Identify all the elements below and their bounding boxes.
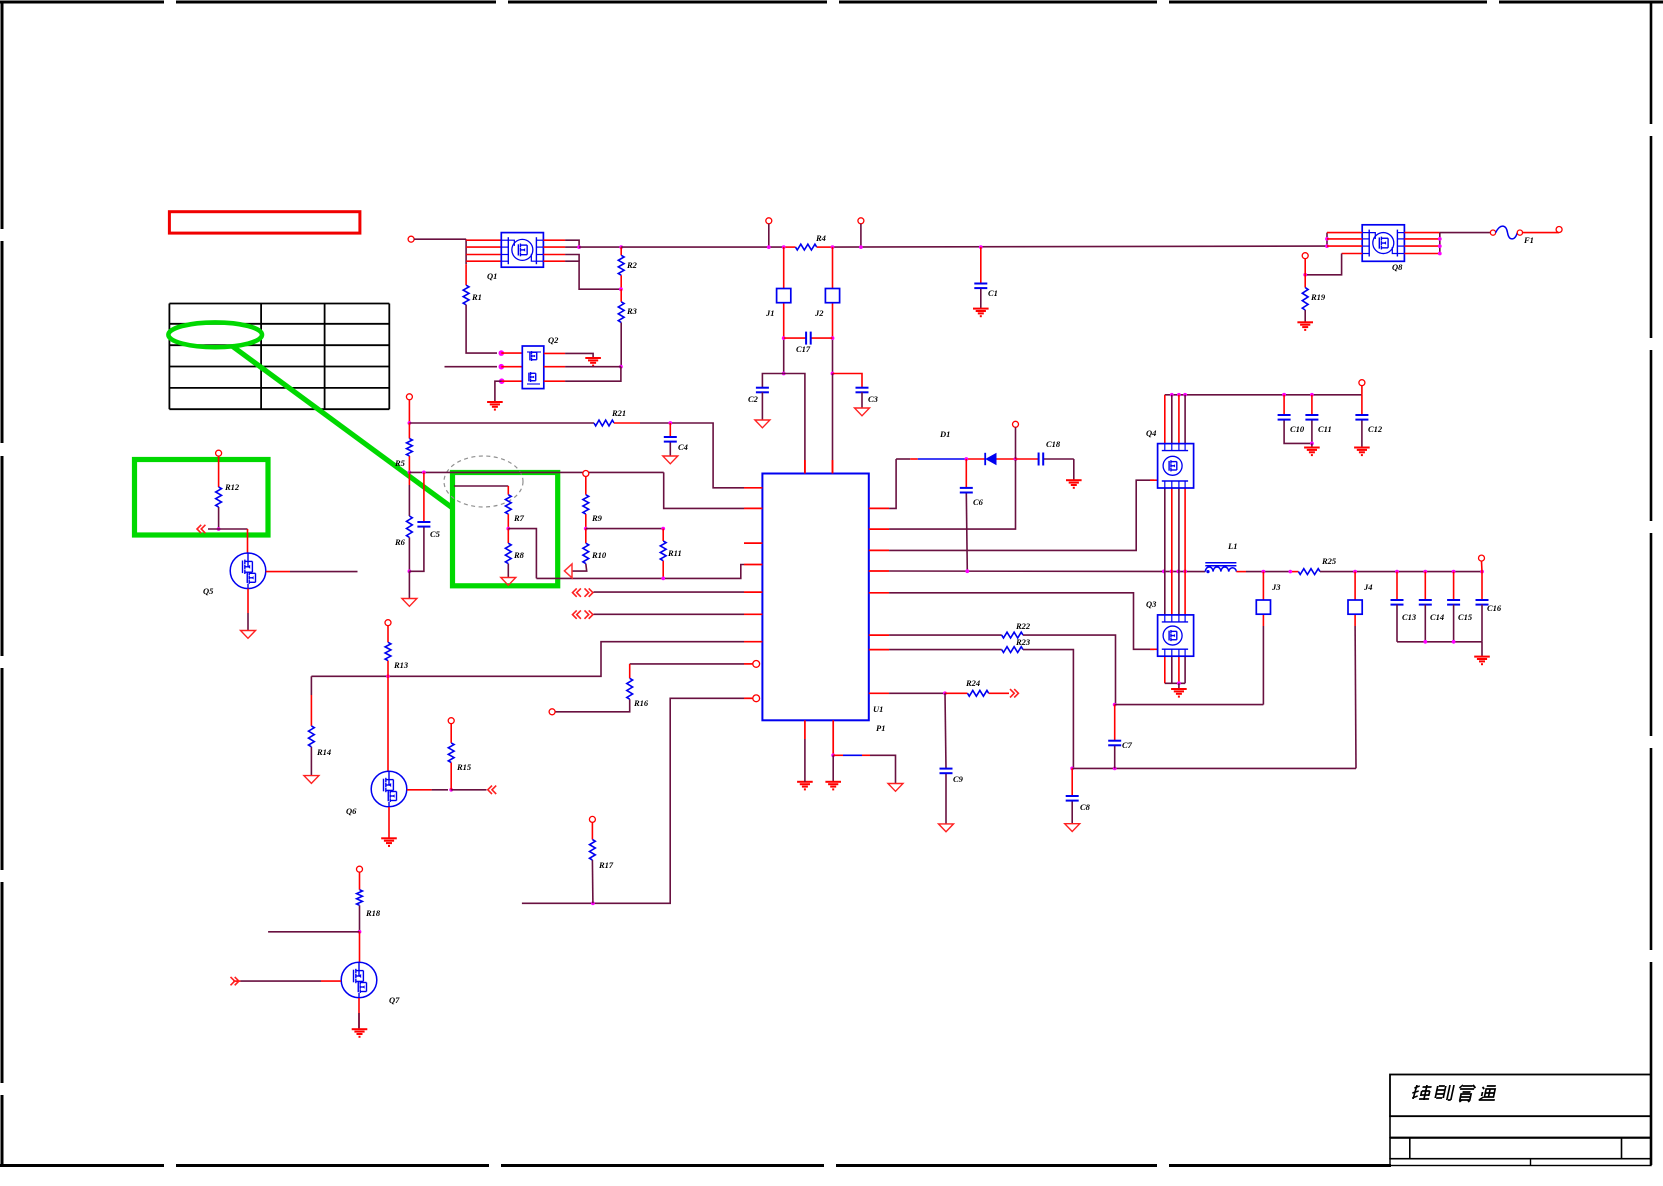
jumper S4 (1348, 600, 1362, 614)
svg-text:R11: R11 (667, 548, 682, 558)
label R21 (611, 408, 626, 418)
label R4 (815, 233, 826, 243)
wire IC pin698 route (522, 698, 744, 903)
resistor R2 (618, 255, 624, 275)
label L1 (1227, 541, 1237, 551)
wire R2 leads (620, 247, 622, 289)
inductor L1 (1205, 563, 1236, 574)
label Q5 (203, 586, 214, 596)
wire T2 tap (768, 224, 770, 247)
wire to ground GB1 (408, 571, 410, 598)
wire P3 out (1440, 232, 1490, 234)
junction (859, 245, 863, 249)
svg-text:R4: R4 (815, 233, 826, 243)
svg-text:R5: R5 (394, 458, 406, 468)
wire node to sense line (508, 529, 536, 579)
wire S4 chain (1354, 572, 1357, 769)
wire P3 left bus bar (1326, 233, 1328, 247)
resistor R23 inline (1002, 647, 1023, 653)
capacitor C2 (756, 388, 769, 393)
junction (1395, 570, 1399, 574)
wire fet bus mid (1178, 488, 1180, 615)
junction (1177, 681, 1181, 685)
terminal T15 (549, 709, 555, 715)
wire Q6 gate (407, 789, 448, 791)
wire C17 leads (784, 337, 833, 339)
wire C14 top lead (1424, 572, 1426, 600)
svg-text:R22: R22 (1015, 621, 1031, 631)
junction (782, 336, 786, 340)
capacitor C17 (806, 332, 811, 345)
label S3 (1271, 582, 1281, 592)
sheet border top edge (0, 1, 1663, 4)
wire Q5 source (247, 589, 249, 631)
wire fet bus mid (1171, 488, 1173, 615)
wire R10 chain (572, 529, 587, 572)
capacitor C16 (1476, 600, 1489, 605)
wire P5 gate stub (1150, 648, 1158, 650)
wire R15 chain (450, 724, 452, 790)
svg-text:Q2: Q2 (548, 335, 559, 345)
ground (973, 309, 989, 317)
wire diode to node (997, 458, 1016, 460)
wire VOUT bus (1320, 571, 1482, 573)
wire Q1 left pin stubs (466, 240, 501, 261)
label R9 (591, 513, 603, 523)
label Q2 (548, 335, 559, 345)
svg-text:F1: F1 (1523, 235, 1534, 245)
mosfet Q2 dual package (522, 346, 544, 389)
wire fet bus lower (1178, 656, 1180, 683)
junction (449, 788, 453, 792)
resistor R24 inline (968, 690, 989, 696)
offpage connector pair A (573, 588, 593, 596)
ground (663, 456, 678, 464)
mosfet P4 package (1158, 444, 1194, 488)
label R7 (513, 513, 525, 523)
junction (1262, 570, 1266, 574)
label R3 (626, 306, 638, 316)
wire SW to R25 (1236, 571, 1298, 573)
junction (1452, 570, 1456, 574)
wire fet bus upper (1178, 395, 1180, 444)
wire IC pin508 up-over (889, 459, 896, 508)
label C11 (1318, 424, 1332, 434)
wire SW node (889, 570, 1205, 573)
junction (1162, 570, 1166, 574)
junction (1480, 570, 1484, 574)
wire Q2 left pin stubs (501, 353, 522, 381)
junction (1183, 393, 1187, 397)
ground (585, 358, 601, 366)
junction (1070, 767, 1074, 771)
resistor R12 (216, 487, 222, 507)
wire IC pin635 lead (889, 634, 1002, 636)
mosfet P3 package (1362, 225, 1404, 261)
wire fet bus lower (1171, 656, 1173, 683)
wire T1 to Q1 pin bus (414, 238, 466, 240)
svg-text:Q6: Q6 (346, 806, 357, 816)
wire divider stub (454, 485, 508, 487)
wire C13 bottom lead (1396, 605, 1398, 642)
junction (217, 527, 221, 531)
offpage connector (488, 786, 496, 794)
svg-text:R12: R12 (224, 482, 240, 492)
label R6 (394, 537, 406, 547)
jumper S2 (825, 289, 839, 303)
offpage connector (231, 977, 239, 985)
resistor R6 (407, 516, 413, 537)
wire node to R11 (586, 528, 663, 530)
resistor R7 (505, 495, 511, 514)
junction (422, 471, 426, 475)
wire Q6 source (388, 807, 390, 838)
wire Q1 drain to bus (579, 246, 621, 248)
label R12 (224, 482, 240, 492)
wire IC pin592 route (889, 593, 1154, 650)
wire R3 leads (620, 289, 622, 367)
label C4 (678, 442, 688, 452)
svg-text:D1: D1 (939, 429, 950, 439)
connector arrow left (564, 564, 572, 578)
resistor R25 inline (1298, 569, 1320, 575)
label S1 (765, 308, 775, 318)
wire to IC pin 592 (594, 591, 745, 593)
svg-text:C17: C17 (796, 344, 811, 354)
wire to Q5 drain (247, 529, 249, 553)
svg-text:C13: C13 (1402, 612, 1417, 622)
wire Q5 gate right (266, 571, 358, 573)
sheet border right edge (1650, 2, 1653, 1165)
capacitor C5 (417, 522, 430, 527)
wire Q7 gate (233, 980, 341, 982)
junction (1325, 244, 1329, 248)
junction (661, 577, 665, 581)
label C15 (1458, 612, 1473, 622)
junction (767, 245, 771, 249)
wire C15 top lead (1453, 572, 1455, 600)
wire diode net segs (896, 458, 985, 460)
terminal (1517, 230, 1522, 235)
svg-text:R18: R18 (365, 908, 381, 918)
wire IC top pin B (832, 374, 834, 474)
resistor R13 (385, 642, 391, 660)
wire R23 to node (1023, 650, 1073, 769)
junction (619, 245, 623, 249)
wire C7 chain (1114, 705, 1116, 769)
svg-text:R24: R24 (965, 678, 980, 688)
terminal T14 (448, 718, 454, 724)
wire gnd stem (1481, 642, 1483, 657)
label R14 (316, 747, 331, 757)
junction (619, 287, 623, 291)
svg-text:R3: R3 (626, 306, 638, 316)
wire fet bus upper (1164, 395, 1166, 444)
wire S3 node join (1115, 704, 1264, 706)
label C6 (973, 497, 984, 507)
ground (352, 1029, 368, 1037)
svg-text:C14: C14 (1430, 612, 1444, 622)
capacitor C3 (856, 388, 869, 393)
wire C18 leads (1016, 458, 1074, 460)
svg-text:P1: P1 (876, 723, 885, 733)
green highlight ellipse (168, 322, 262, 347)
wire C8 chain (1071, 768, 1073, 823)
wire R1 to Q2 pin (466, 305, 497, 353)
svg-text:R14: R14 (316, 747, 331, 757)
terminal T16 (385, 620, 391, 626)
ground (402, 599, 417, 607)
red highlight rectangle (169, 212, 360, 233)
offpage connector (197, 525, 205, 533)
label R11 (667, 548, 682, 558)
label R1 (471, 292, 482, 302)
capacitor C13 (1391, 600, 1404, 605)
resistor R14 (309, 726, 315, 747)
wire to IC pin 614 (594, 613, 745, 615)
junction (1452, 640, 1456, 644)
junction (1113, 703, 1117, 707)
ground (825, 782, 841, 790)
wire P3 right bus bar (1439, 233, 1441, 254)
wire C5 chain (409, 472, 424, 571)
wire C11 chain (1311, 395, 1313, 444)
label R5 (394, 458, 406, 468)
capacitor C7 (1108, 741, 1121, 746)
ground (381, 838, 397, 846)
svg-text:R21: R21 (611, 408, 626, 418)
junction (591, 901, 595, 905)
resistor R4 inline (796, 244, 817, 250)
svg-text:Q5: Q5 (203, 586, 214, 596)
label R22 (1015, 621, 1031, 631)
wire Q2 pin6 to node (565, 366, 621, 368)
junction (831, 753, 835, 757)
junction (831, 336, 835, 340)
wire Q1 drain joins (565, 240, 621, 289)
wire C12 chain (1361, 395, 1363, 448)
resistor R18 (357, 890, 363, 906)
wire S3 chain (1262, 572, 1264, 705)
svg-text:R17: R17 (598, 860, 614, 870)
resistor R22 inline (1002, 632, 1023, 638)
resistor R9 (583, 495, 589, 514)
label R2 (626, 260, 638, 270)
label R18 (365, 908, 381, 918)
svg-text:R6: R6 (394, 537, 406, 547)
terminal T9 (1479, 555, 1485, 561)
junction (661, 527, 665, 531)
svg-text:Q3: Q3 (1146, 599, 1157, 609)
ground (1297, 322, 1313, 330)
revision table (169, 304, 389, 410)
mosfet Q1 package (501, 233, 543, 268)
wire fet bus lower (1164, 656, 1166, 683)
label C7 (1122, 740, 1133, 750)
label C10 (1290, 424, 1305, 434)
resistor R3 (618, 302, 624, 323)
junction (1423, 640, 1427, 644)
label C9 (953, 774, 964, 784)
capacitor C14 (1419, 600, 1432, 605)
wire fet gnd join (1165, 682, 1185, 684)
ground (939, 824, 954, 832)
wire gate net (208, 528, 248, 530)
wire node to C3 (833, 374, 863, 388)
junction (408, 471, 412, 475)
wire C1 leads (980, 247, 982, 309)
ground (1065, 824, 1080, 832)
ground (1474, 657, 1490, 665)
label R13 (393, 660, 409, 670)
svg-text:Q1: Q1 (487, 271, 497, 281)
svg-text:U1: U1 (873, 704, 883, 714)
wire C4 leads (669, 423, 671, 456)
label C12 (1368, 424, 1383, 434)
resistor R10 (583, 543, 589, 563)
svg-text:R9: R9 (591, 513, 603, 523)
wire R13 chain (387, 626, 389, 677)
wire R12 chain (218, 456, 220, 529)
transistor Q6 (371, 771, 407, 807)
resistor R15 (448, 743, 454, 763)
svg-text:L1: L1 (1227, 541, 1237, 551)
jumper S1 (777, 289, 791, 303)
junction (1177, 393, 1181, 397)
label R10 (591, 550, 607, 560)
label R19 (1310, 292, 1326, 302)
wire fet bus lower (1184, 656, 1186, 683)
wire R8 chain (507, 529, 509, 578)
label R23 (1015, 637, 1031, 647)
junction (386, 674, 390, 678)
terminal T2 (766, 218, 772, 224)
svg-text:R23: R23 (1015, 637, 1031, 647)
wire F1 out (1523, 232, 1560, 234)
svg-text:R8: R8 (513, 550, 525, 560)
label P3 (1392, 262, 1403, 272)
resistor R1 (463, 285, 469, 305)
wire to Q7 drain (359, 932, 361, 962)
ground (241, 631, 256, 639)
junction (1438, 252, 1442, 256)
junction (499, 378, 505, 384)
wire Q2 pin3 to ground (495, 381, 502, 401)
label C1 (988, 288, 998, 298)
wire IC top pin A (784, 374, 805, 474)
label P4 (1146, 428, 1156, 438)
svg-text:C4: C4 (678, 442, 688, 452)
junction (943, 691, 947, 695)
wire R17 chain (591, 822, 594, 903)
svg-text:C6: C6 (973, 497, 984, 507)
terminal T12 (216, 450, 222, 456)
svg-text:R13: R13 (393, 660, 409, 670)
wire P3 pin4 route (1305, 254, 1341, 275)
label R25 (1321, 556, 1337, 566)
wire C2 to ground (761, 392, 763, 420)
wire pad net (833, 755, 895, 783)
resistor R19 (1302, 288, 1308, 310)
ground (855, 408, 870, 416)
svg-text:C8: C8 (1080, 802, 1091, 812)
junction (965, 569, 969, 573)
terminal T8 (1302, 253, 1308, 259)
label R17 (598, 860, 614, 870)
svg-text:R2: R2 (626, 260, 638, 270)
svg-text:C3: C3 (868, 394, 879, 404)
wire T4 tap (1361, 386, 1363, 395)
wire T3 tap (860, 224, 862, 247)
label R24 (965, 678, 980, 688)
svg-text:C7: C7 (1122, 740, 1133, 750)
label C18 (1046, 439, 1061, 449)
jumper S3 (1256, 600, 1270, 614)
wire R24 lead (945, 692, 968, 694)
label C3 (868, 394, 879, 404)
svg-text:R10: R10 (591, 550, 607, 560)
wire IC pin693 lead (889, 692, 945, 694)
wire IC pin650 lead (889, 649, 1002, 651)
junction (1113, 767, 1117, 771)
wire Q6 gate net right (451, 789, 486, 791)
wire C14 bottom lead (1424, 605, 1426, 642)
label R15 (456, 762, 472, 772)
junction (499, 350, 505, 356)
wire S2 chain (832, 247, 834, 373)
wire to IC pin 508 (664, 472, 744, 508)
wire Q1 pin bus bar (465, 239, 467, 264)
wire node to Q6 drain (387, 676, 389, 771)
label Q6 (346, 806, 357, 816)
ground (1304, 448, 1320, 456)
terminal T4 (1359, 380, 1365, 386)
svg-text:R7: R7 (513, 513, 525, 523)
ground (487, 402, 503, 410)
ground (797, 782, 813, 790)
svg-text:C5: C5 (430, 529, 441, 539)
junction (1170, 570, 1174, 574)
sheet border left edge (1, 2, 4, 1165)
transistor Q7 (341, 962, 377, 998)
wire net y472 (409, 471, 663, 473)
junction (831, 372, 835, 376)
capacitor C9 (940, 769, 953, 774)
capacitor C8 (1066, 796, 1079, 801)
wire T9 tap (1481, 561, 1484, 572)
label Q7 (389, 995, 400, 1005)
svg-text:J2: J2 (814, 308, 824, 318)
wire C3 to ground (861, 392, 863, 408)
svg-text:R16: R16 (633, 698, 649, 708)
wire Q1 right pin stubs (543, 240, 565, 261)
junction (1438, 237, 1442, 241)
label S2 (814, 308, 824, 318)
wire C6 chain (966, 459, 967, 571)
svg-text:J1: J1 (765, 308, 775, 318)
svg-text:J4: J4 (1363, 582, 1373, 592)
svg-text:C1: C1 (988, 288, 998, 298)
ground (1171, 689, 1187, 697)
svg-text:C18: C18 (1046, 439, 1061, 449)
wire S1 chain (783, 247, 785, 373)
junction (1014, 457, 1018, 461)
wire R5 chain (408, 423, 410, 472)
ground (755, 420, 770, 428)
junction (408, 421, 412, 425)
ground (304, 776, 319, 784)
wire fet gnd stem (1178, 683, 1180, 689)
